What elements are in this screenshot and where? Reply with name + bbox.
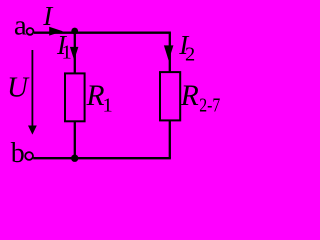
wire: left branch vertical, junction to R1 top xyxy=(74,33,76,74)
resistor R2-7 (box) xyxy=(160,72,180,120)
wire: right branch vertical, top corner to R2-7 top xyxy=(169,33,171,72)
svg-text:a: a xyxy=(14,10,27,42)
svg-text:2-7: 2-7 xyxy=(199,95,220,117)
wire: left branch vertical, R1 bottom to bottom wire xyxy=(74,121,76,158)
terminal a (open circle) xyxy=(27,28,34,35)
wire: top horizontal from terminal a to right corner xyxy=(34,32,171,34)
resistor R1 (box) xyxy=(65,73,85,121)
voltage arrow U head xyxy=(28,126,37,135)
current arrow I (points right) on top wire xyxy=(49,27,63,36)
wire: bottom horizontal from terminal b to right corner xyxy=(33,157,171,159)
svg-text:1: 1 xyxy=(62,41,72,63)
node junction dot top xyxy=(71,28,78,35)
svg-text:1: 1 xyxy=(103,94,113,116)
svg-text:2: 2 xyxy=(185,43,195,65)
svg-text:U: U xyxy=(7,72,30,104)
svg-text:b: b xyxy=(11,138,25,169)
voltage arrow U shaft (down, left side) xyxy=(31,50,33,127)
current arrow I1 (points down) on left branch xyxy=(70,47,79,60)
wire: right branch vertical, R2-7 bottom to bottom wire xyxy=(169,120,171,158)
terminal b (open circle) xyxy=(25,152,33,160)
node junction dot bottom xyxy=(71,155,78,162)
svg-text:R: R xyxy=(180,80,199,112)
current arrow I2 (points down) on right branch xyxy=(164,45,174,60)
